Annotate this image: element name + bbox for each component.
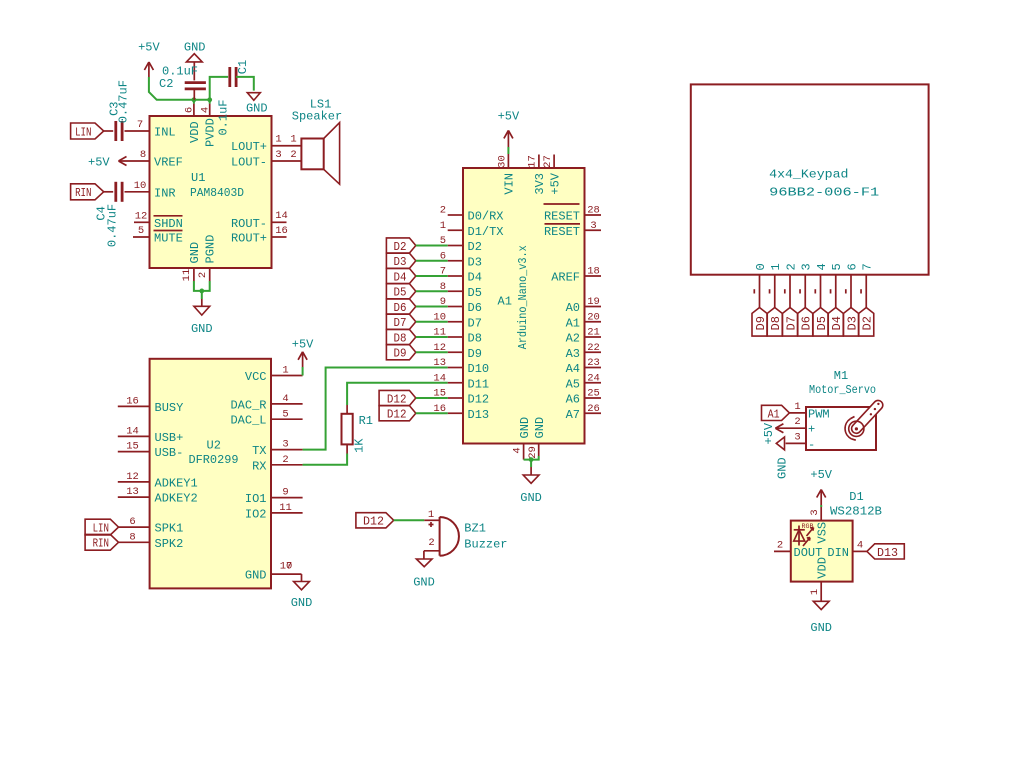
global label D6: [386, 299, 415, 315]
pin 5 MUTE (active low): [133, 225, 183, 246]
svg-text:6: 6: [845, 263, 859, 270]
pin 1 D1/TX (A1 left): [440, 220, 504, 239]
svg-text:IO1: IO1: [245, 492, 267, 506]
ground symbol below U1: [191, 299, 213, 336]
svg-text:GND: GND: [775, 457, 789, 479]
svg-text:A1: A1: [566, 316, 580, 330]
global label D4 (keypad pin 5): [828, 308, 844, 337]
svg-text:D12: D12: [387, 392, 407, 406]
pin 11 D8 (A1 left): [433, 327, 482, 346]
svg-text:D2: D2: [468, 240, 482, 254]
svg-text:D8: D8: [394, 331, 407, 345]
wire D2 label to pin: [416, 245, 448, 247]
pin 4 (keypad): [815, 263, 829, 307]
pin 12 SHDN (active low): [134, 210, 183, 231]
svg-text:DAC_L: DAC_L: [230, 414, 266, 428]
svg-text:2: 2: [440, 205, 446, 217]
svg-text:16: 16: [275, 225, 288, 237]
svg-text:23: 23: [587, 357, 600, 369]
svg-text:3: 3: [282, 439, 288, 451]
pin 10 D7 (A1 left): [433, 311, 482, 330]
svg-text:2: 2: [282, 454, 288, 466]
svg-text:2: 2: [784, 263, 798, 270]
global label D8 (keypad pin 1): [767, 308, 783, 337]
pin 4 DIN (D1): [827, 539, 867, 560]
pin 3 VSS with +5V power symbol (D1 top): [809, 507, 830, 544]
svg-text:1K: 1K: [352, 438, 366, 453]
global label D5: [386, 284, 415, 300]
wire D5 label to pin: [416, 290, 448, 292]
svg-text:D6: D6: [394, 301, 407, 315]
svg-text:GND: GND: [188, 242, 202, 264]
pin 10 GND (stacked pin numbers): [245, 560, 302, 582]
pin 2 (BZ1): [424, 537, 440, 551]
capacitor C2: [159, 65, 206, 100]
svg-text:7: 7: [286, 560, 292, 572]
global label RIN (to INR): [71, 184, 104, 200]
LED D1 WS2812B body: [791, 490, 882, 582]
servo horn hub: [845, 417, 864, 441]
svg-text:13: 13: [126, 486, 139, 498]
pin 14 USB+: [118, 426, 184, 445]
op-amp U1 PAM8403D body: [150, 116, 272, 268]
global label RIN (to SPK2): [85, 534, 118, 550]
svg-text:5: 5: [830, 263, 844, 270]
pin 15 D12 (A1 left): [433, 388, 489, 407]
svg-text:9: 9: [282, 487, 288, 499]
svg-text:C1: C1: [236, 60, 250, 74]
pin 13 ADKEY2: [118, 486, 198, 505]
pin 10 INR: [125, 180, 176, 201]
svg-text:D3: D3: [468, 255, 482, 269]
pin 2 D0/RX (A1 left): [440, 205, 504, 224]
power +5V above D1: [810, 468, 832, 507]
pin 15 USB-: [118, 441, 184, 460]
wire D7 label to pin: [416, 321, 448, 323]
pin 4 PVDD (top): [200, 104, 218, 147]
motor M1 Motor_Servo body: [806, 369, 876, 450]
svg-text:PAM8403D: PAM8403D: [190, 186, 244, 200]
svg-text:14: 14: [126, 426, 139, 438]
svg-text:D9: D9: [754, 316, 768, 330]
svg-text:GND: GND: [520, 491, 542, 505]
svg-text:MUTE: MUTE: [154, 232, 183, 246]
svg-text:AREF: AREF: [551, 271, 580, 285]
pin 1 VDD (D1 bottom): [809, 557, 830, 601]
pin 16 D13 (A1 left): [433, 403, 489, 422]
pin 9 IO1: [245, 487, 303, 506]
svg-text:VCC: VCC: [245, 370, 267, 384]
pin 24 A5 (A1 right): [566, 372, 601, 391]
svg-text:22: 22: [587, 342, 600, 354]
global label D7: [386, 314, 415, 330]
pin 8 D5 (A1 left): [440, 281, 482, 300]
svg-text:28: 28: [587, 205, 600, 217]
svg-text:4: 4: [200, 107, 212, 113]
wire D8 label to pin: [416, 336, 448, 338]
svg-text:A5: A5: [566, 377, 580, 391]
svg-text:D2: D2: [861, 316, 875, 330]
svg-text:RESET: RESET: [544, 210, 580, 224]
pin 4 DAC_R: [230, 393, 302, 412]
svg-text:1: 1: [275, 134, 281, 146]
global label D9 (keypad pin 0): [752, 308, 768, 337]
pin 6 D3 (A1 left): [440, 250, 482, 269]
svg-text:2: 2: [428, 537, 434, 549]
svg-text:+5V: +5V: [498, 110, 520, 124]
pin 2 DOUT (D1): [774, 539, 822, 560]
wire U2 GND down: [301, 574, 303, 581]
pin 11 IO2: [245, 502, 303, 521]
wire D12 label to pin: [416, 397, 448, 399]
svg-text:ROUT-: ROUT-: [231, 217, 267, 231]
svg-text:DAC_R: DAC_R: [230, 398, 266, 412]
svg-text:GND: GND: [191, 322, 213, 336]
pin 21 A2 (A1 right): [566, 327, 601, 346]
svg-text:D12: D12: [363, 515, 384, 529]
pin 8 SPK2: [119, 531, 184, 550]
pin 0 (keypad): [754, 263, 768, 307]
capacitor C1: [210, 60, 251, 136]
svg-text:IO2: IO2: [245, 507, 267, 521]
buzzer BZ1: [429, 517, 508, 556]
svg-text:SPK2: SPK2: [155, 537, 184, 551]
pin 4 GND (A1 bottom): [511, 417, 532, 460]
svg-text:A6: A6: [566, 393, 580, 407]
svg-text:D1: D1: [849, 490, 863, 504]
svg-text:7: 7: [137, 119, 143, 131]
svg-text:1: 1: [290, 134, 296, 146]
ground symbol below U2: [291, 582, 313, 610]
svg-text:RIN: RIN: [75, 186, 91, 200]
svg-text:D12: D12: [387, 408, 407, 422]
svg-text:+5V: +5V: [88, 156, 110, 170]
svg-text:INL: INL: [154, 126, 176, 140]
svg-text:VREF: VREF: [154, 156, 183, 170]
global label D2 (keypad pin 7): [859, 308, 875, 337]
wire D4 label to pin: [416, 275, 448, 277]
svg-text:VSS: VSS: [815, 522, 829, 544]
pin 13 D10 (A1 left): [433, 357, 489, 376]
svg-text:VIN: VIN: [503, 173, 517, 195]
svg-text:D11: D11: [468, 377, 490, 391]
svg-text:D3: D3: [394, 255, 407, 269]
svg-text:U1: U1: [191, 171, 205, 185]
svg-text:+5V: +5V: [138, 41, 160, 55]
svg-text:+5V: +5V: [762, 422, 776, 444]
pin 6 (keypad): [845, 263, 859, 307]
svg-text:ROUT+: ROUT+: [231, 232, 267, 246]
svg-text:Buzzer: Buzzer: [464, 538, 507, 552]
pin 1 LOUT+ / pin 3 LOUT- to speaker: [231, 134, 301, 170]
svg-text:5: 5: [282, 408, 288, 420]
svg-text:3V3: 3V3: [533, 173, 547, 195]
power +5V symbol at U2 VCC: [292, 337, 314, 375]
svg-text:D9: D9: [394, 347, 407, 361]
svg-text:12: 12: [126, 471, 139, 483]
svg-text:14: 14: [433, 372, 446, 384]
pin 26 A7 (A1 right): [566, 403, 601, 422]
pin 27 +5V (A1 top): [542, 155, 562, 195]
svg-text:GND: GND: [533, 417, 547, 439]
svg-text:24: 24: [587, 372, 600, 384]
global label D12: [379, 406, 416, 422]
svg-text:A7: A7: [566, 408, 580, 422]
svg-text:+: +: [808, 423, 815, 437]
svg-text:VDD: VDD: [815, 557, 829, 579]
global label D5 (keypad pin 4): [813, 308, 829, 337]
junction below A1: [529, 457, 534, 462]
pin 1 (keypad): [769, 263, 783, 307]
svg-text:A2: A2: [566, 332, 580, 346]
wire R1 top to Arduino D11: [347, 383, 448, 405]
wire GND U from pins 11/2: [194, 281, 210, 299]
pin 29 GND (A1 bottom): [527, 417, 547, 459]
global label D4: [386, 268, 415, 284]
svg-text:R1: R1: [359, 414, 373, 428]
pin 16 BUSY: [118, 396, 184, 415]
svg-text:TX: TX: [252, 444, 266, 458]
svg-text:0: 0: [754, 263, 768, 270]
resistor R1: [342, 405, 374, 454]
svg-text:U2: U2: [207, 439, 221, 453]
svg-text:1: 1: [809, 589, 821, 595]
wire U2 TX to Arduino D10: [303, 368, 448, 450]
svg-text:D4: D4: [394, 270, 407, 284]
global label D9: [386, 345, 415, 361]
svg-text:25: 25: [587, 388, 600, 400]
svg-text:18: 18: [587, 266, 600, 278]
svg-text:D6: D6: [468, 301, 482, 315]
svg-text:D8: D8: [769, 316, 783, 330]
LED symbol inside D1: [794, 523, 814, 546]
svg-text:8: 8: [140, 149, 146, 161]
pin 3 TX: [252, 439, 303, 458]
capacitor C4: [95, 182, 123, 247]
keypad 4x4_Keypad 96BB2-006-F1 body: [691, 84, 929, 274]
pin 7 D4 (A1 left): [440, 266, 482, 285]
global label D13 (to DIN): [867, 544, 904, 560]
pin 6 VDD (top): [184, 104, 203, 143]
pin 5 DAC_L: [230, 408, 302, 427]
global label LIN (to SPK1): [85, 519, 118, 535]
svg-text:DFR0299: DFR0299: [189, 453, 239, 467]
svg-text:D5: D5: [468, 286, 482, 300]
svg-text:C2: C2: [159, 77, 173, 91]
svg-text:D6: D6: [800, 316, 814, 330]
svg-text:GND: GND: [810, 621, 832, 635]
pin 16 ROUT+: [231, 225, 288, 246]
svg-text:SHDN: SHDN: [154, 217, 183, 231]
pin 25 A6 (A1 right): [566, 388, 601, 407]
svg-text:20: 20: [587, 311, 600, 323]
svg-text:26: 26: [587, 403, 600, 415]
svg-text:WS2812B: WS2812B: [830, 504, 882, 518]
wire D3 label to pin: [416, 260, 448, 262]
power +5V symbol above A1: [498, 110, 520, 147]
svg-text:PGND: PGND: [204, 235, 218, 264]
svg-text:GND: GND: [184, 40, 206, 54]
svg-text:D4: D4: [468, 271, 482, 285]
svg-text:PVDD: PVDD: [204, 118, 218, 147]
pin 1 (BZ1): [424, 509, 439, 521]
svg-text:BUSY: BUSY: [155, 401, 184, 415]
servo horn arm: [856, 403, 879, 429]
svg-text:4: 4: [857, 539, 863, 551]
ground symbol right of C1: [246, 93, 268, 116]
svg-text:11: 11: [279, 502, 292, 514]
svg-text:1: 1: [794, 401, 800, 413]
pin 18 AREF (A1 right): [551, 266, 601, 285]
svg-text:D9: D9: [468, 347, 482, 361]
global label D6 (keypad pin 3): [798, 308, 814, 337]
svg-text:19: 19: [587, 296, 600, 308]
pin 7 INL: [125, 119, 176, 140]
svg-text:1: 1: [440, 220, 446, 232]
svg-text:D1/TX: D1/TX: [468, 225, 504, 239]
power +5V symbol top-left: [138, 41, 160, 77]
pin 5 D2 (A1 left): [440, 235, 482, 254]
svg-text:-: -: [808, 438, 815, 452]
svg-text:D5: D5: [394, 286, 407, 300]
global label D7 (keypad pin 2): [783, 308, 799, 337]
pin 2 + with +5V power symbol (M1): [762, 416, 815, 444]
pin 5 (keypad): [830, 263, 844, 307]
pin 12 ADKEY1: [118, 471, 198, 490]
svg-text:+5V: +5V: [548, 172, 562, 194]
wire +5V to VIN: [507, 147, 509, 154]
svg-text:6: 6: [129, 516, 135, 528]
svg-text:BZ1: BZ1: [464, 522, 486, 536]
svg-text:D12: D12: [468, 393, 490, 407]
svg-text:A1: A1: [768, 407, 780, 421]
svg-text:PWM: PWM: [808, 407, 830, 421]
svg-text:D8: D8: [468, 332, 482, 346]
wire U2 RX to R1 bottom: [303, 454, 348, 465]
junction VDD: [192, 97, 197, 102]
global label D12: [379, 390, 416, 406]
svg-text:4x4_Keypad: 4x4_Keypad: [769, 168, 848, 182]
pin 9 D6 (A1 left): [440, 296, 482, 315]
svg-text:A1: A1: [498, 294, 512, 308]
svg-text:13: 13: [433, 357, 446, 369]
global label D3 (keypad pin 6): [844, 308, 860, 337]
svg-text:INR: INR: [154, 186, 176, 200]
svg-text:2: 2: [794, 416, 800, 428]
svg-text:D13: D13: [468, 408, 490, 422]
svg-text:0.1uF: 0.1uF: [217, 99, 231, 135]
svg-text:11: 11: [181, 269, 193, 282]
MCU A1 Arduino_Nano_v3.x body: [463, 168, 585, 444]
global label D8: [386, 329, 415, 345]
svg-text:RX: RX: [252, 459, 266, 473]
svg-text:10: 10: [134, 180, 147, 192]
svg-text:GND: GND: [291, 596, 313, 610]
pin 1 PWM (M1): [789, 401, 829, 422]
svg-text:D10: D10: [468, 362, 490, 376]
pin 1 VCC: [245, 365, 303, 384]
svg-text:1: 1: [428, 509, 434, 521]
svg-text:RIN: RIN: [93, 537, 109, 551]
pin 3 - with ground symbol (M1): [775, 431, 815, 479]
svg-text:8: 8: [129, 531, 135, 543]
global label D3: [386, 253, 415, 269]
svg-text:D4: D4: [830, 316, 844, 330]
pin 2 PGND (bottom): [197, 235, 218, 281]
svg-text:D2: D2: [394, 240, 407, 254]
svg-text:LIN: LIN: [93, 522, 109, 536]
wire D12 label to pin: [416, 412, 448, 414]
svg-text:RESET: RESET: [544, 225, 580, 239]
speaker LS1: [292, 98, 342, 185]
svg-text:2: 2: [197, 272, 209, 278]
svg-text:4: 4: [511, 447, 523, 453]
pin 7 (keypad): [861, 263, 875, 307]
svg-text:Motor_Servo: Motor_Servo: [809, 383, 876, 397]
pin 2 (keypad): [784, 263, 798, 307]
svg-text:12: 12: [135, 210, 148, 222]
pin 20 A1 (A1 right): [566, 311, 601, 330]
svg-text:A4: A4: [566, 362, 580, 376]
svg-text:4: 4: [815, 263, 829, 270]
wire D9 label to pin: [416, 351, 448, 353]
svg-text:VDD: VDD: [188, 121, 202, 143]
svg-text:ADKEY1: ADKEY1: [155, 476, 198, 490]
svg-text:14: 14: [275, 210, 288, 222]
svg-text:GND: GND: [245, 569, 267, 583]
svg-text:Speaker: Speaker: [292, 109, 342, 123]
wire BZ1 pin2 to ground: [423, 551, 425, 559]
pin 14 ROUT-: [231, 210, 288, 231]
capacitor C3: [104, 80, 131, 141]
pin 8 VREF with +5V power symbol: [88, 149, 183, 170]
wire +5V to VDD/PVDD: [149, 77, 210, 104]
svg-text:Arduino_Nano_v3.x: Arduino_Nano_v3.x: [516, 245, 530, 349]
svg-text:LIN: LIN: [75, 125, 91, 139]
pin 22 A3 (A1 right): [566, 342, 601, 361]
pin 19 A0 (A1 right): [566, 296, 601, 315]
svg-text:2: 2: [777, 539, 783, 551]
ground symbol below D1: [810, 601, 832, 635]
svg-text:GND: GND: [246, 101, 268, 115]
pin 11 GND (bottom): [181, 242, 202, 281]
svg-text:GND: GND: [413, 575, 435, 589]
global label D12 (to buzzer): [356, 513, 394, 529]
pin 12 D9 (A1 left): [433, 342, 482, 361]
svg-text:1: 1: [282, 365, 288, 377]
svg-text:21: 21: [587, 327, 600, 339]
svg-text:D13: D13: [877, 546, 898, 560]
wire D6 label to pin: [416, 306, 448, 308]
svg-text:3: 3: [800, 263, 814, 270]
svg-text:4: 4: [282, 393, 288, 405]
svg-text:15: 15: [126, 441, 139, 453]
pin 6 SPK1: [119, 516, 184, 535]
junction at U1 ground: [199, 289, 204, 294]
wire GND U below A1: [524, 456, 539, 467]
svg-text:30: 30: [497, 155, 509, 168]
svg-text:D0/RX: D0/RX: [468, 210, 504, 224]
IC U2 DFR0299 body: [150, 359, 271, 589]
svg-text:2: 2: [290, 149, 296, 161]
svg-text:+5V: +5V: [292, 337, 314, 351]
svg-text:D5: D5: [815, 316, 829, 330]
svg-text:ADKEY2: ADKEY2: [155, 492, 198, 506]
svg-text:0.47uF: 0.47uF: [106, 204, 120, 247]
svg-text:GND: GND: [518, 417, 532, 439]
svg-text:27: 27: [542, 155, 554, 168]
svg-text:29: 29: [527, 446, 539, 459]
